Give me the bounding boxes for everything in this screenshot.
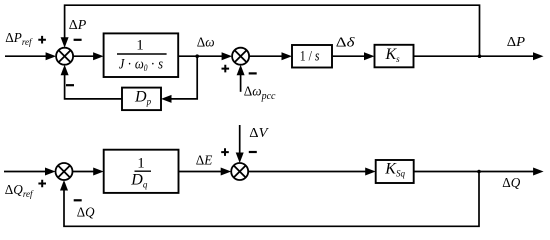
arrowhead down into S4 top [236,153,244,164]
summing junction S3 (bottom-left) [56,163,73,180]
wire B2 to S4 [179,171,223,173]
svg-text:ΔP: ΔP [69,17,86,32]
wire B1 to S2 [178,55,223,57]
wire: tap down to Dp input [170,56,197,99]
fraction bar in B1 [117,53,167,55]
block Dp [122,88,161,111]
node: tap for DeltaQ feedback [477,170,481,174]
plus sign at S4 [221,148,229,156]
block 1/s [292,45,332,68]
svg-text:ΔQref: ΔQref [5,182,34,199]
wire: DeltaQ_ref input line [4,171,47,173]
summing junction S1 (top-left) [56,48,73,65]
wire Dp output to below S1 [65,74,122,99]
fraction bar in B2 [135,170,152,172]
minus sign at S4 [249,151,257,153]
wire: Delta-omega-pcc input [240,74,242,92]
wire S2 to block 1/s [249,55,283,57]
arrowhead output DeltaQ [533,168,544,176]
arrowhead into B1 [93,52,104,60]
arrowhead into S2 [222,52,233,60]
block B1: 1/(J*w0*s) [104,33,179,77]
arrowhead up into S2 bottom [237,65,245,76]
arrowhead into S3 [45,168,56,176]
arrowhead into Ks [364,52,375,60]
plus sign at S1 [38,36,46,44]
block B2: 1/Dq [104,150,179,193]
arrowhead into KSq [365,168,376,176]
svg-text:1: 1 [136,38,144,54]
svg-text:ΔP: ΔP [507,34,525,49]
wire KSq to output DeltaQ [414,171,534,173]
minus sign at S3 [74,199,82,201]
svg-text:Ks: Ks [385,46,401,64]
svg-text:ΔPref: ΔPref [5,30,33,47]
arrowhead into B2 [93,168,104,176]
minus sign at S1 bottom [66,84,74,86]
svg-text:ΔV: ΔV [249,125,269,140]
node: tap for DeltaP feedback [478,54,482,58]
plus sign at S3 [38,180,46,188]
block Ks [375,45,414,68]
svg-text:Δω: Δω [197,35,215,50]
arrowhead output DeltaP [533,52,544,60]
arrowhead up into S3 bottom [60,180,68,191]
node: tap for Dp feedback [195,54,199,58]
svg-text:1: 1 [137,155,145,171]
svg-text:1 / s: 1 / s [300,49,320,65]
wire S1 to block B1 [73,55,95,57]
svg-text:Δδ: Δδ [336,34,356,49]
svg-text:ΔE: ΔE [196,153,213,168]
arrowhead into S4 [221,168,232,176]
wire S3 to block B2 [73,171,95,173]
svg-text:Dp: Dp [134,88,152,106]
wire S4 to KSq [248,171,367,173]
wire: DeltaQ feedback (down, across bottom, up into S3) [64,172,479,227]
svg-text:ΔQ: ΔQ [77,204,95,219]
block KSq [376,160,414,183]
wire 1/s to Ks [332,55,366,57]
minus sign at S2 [249,72,257,74]
svg-text:Dq: Dq [130,172,148,190]
arrowhead up into S1 bottom [61,65,69,76]
svg-text:ΔQ: ΔQ [502,175,520,190]
svg-text:J · ω0 · s: J · ω0 · s [119,57,163,74]
svg-text:KSq: KSq [384,160,405,178]
arrowhead into 1/s [282,52,293,60]
wire Ks to output DeltaP [414,55,535,57]
arrowhead down into S1 top [61,37,69,48]
svg-text:Δωpcc: Δωpcc [244,84,276,102]
wire: DeltaV input down [239,125,241,154]
wire: DeltaP feedback (up, across top, down into S1) [65,5,480,56]
plus sign at S2 [222,65,230,73]
minus sign at S1 top [74,39,82,41]
arrowhead into summing junction S1 [46,52,57,60]
summing junction S2 (top middle) [232,48,249,65]
wire: DeltaP_ref input line [5,55,47,57]
summing junction S4 (bottom middle) [231,163,248,180]
arrowhead into Dp (pointing left) [161,95,172,103]
